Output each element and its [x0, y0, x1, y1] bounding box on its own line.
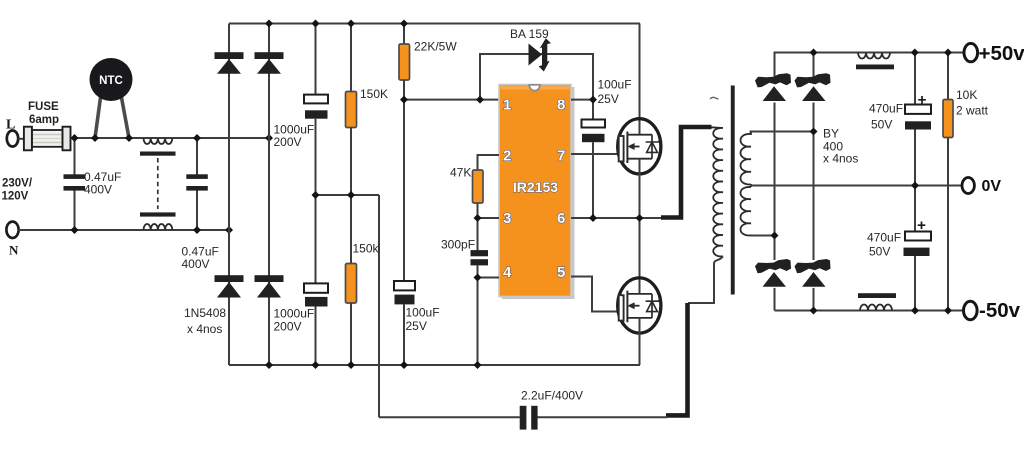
- label FUSE 6amp: [28, 101, 59, 126]
- node dots top rail: [265, 20, 408, 28]
- wire thick primary return: [666, 303, 688, 415]
- svg-text:25V: 25V: [406, 319, 427, 333]
- svg-text:-50v: -50v: [979, 299, 1021, 322]
- label BY 400 x 4nos: [823, 127, 858, 166]
- label 470uF 50V (upper): [869, 102, 903, 132]
- terminal 0V: [962, 178, 1001, 196]
- label 10K 2 watt: [956, 88, 989, 118]
- diode D3 1N5408: [215, 275, 244, 297]
- svg-text:x 4nos: x 4nos: [187, 322, 222, 336]
- wire secondary centre tap (0V line): [751, 185, 962, 187]
- svg-text:6amp: 6amp: [29, 114, 59, 126]
- label 470uF 50V (lower): [867, 231, 901, 259]
- capacitor 1000uF 200V (upper): [304, 24, 328, 284]
- svg-text:6: 6: [557, 210, 565, 227]
- svg-text:4: 4: [503, 264, 512, 281]
- label 1000uF 200V (lower): [274, 307, 315, 334]
- svg-text:x 4nos: x 4nos: [823, 152, 858, 166]
- capacitor 100uF 25V (Vcc filter): [394, 281, 415, 365]
- resistor 150K (upper): [346, 24, 357, 267]
- svg-text:3: 3: [503, 210, 511, 227]
- node dots ground rail: [265, 361, 482, 369]
- svg-text:BY: BY: [823, 127, 839, 141]
- svg-text:120V: 120V: [2, 191, 29, 203]
- capacitor 470uF 50V (lower): [904, 186, 932, 311]
- inductor L3 (-50V filter): [858, 293, 896, 310]
- diode D6 BY400 (top right): [795, 73, 831, 101]
- svg-text:230V/: 230V/: [2, 178, 33, 190]
- transformer T1 primary winding: [712, 127, 724, 256]
- choke core dashed link: [157, 158, 159, 209]
- wire right column to -50 rail: [813, 288, 815, 311]
- diode D5 BY400 (top left): [755, 73, 791, 101]
- svg-text:47K: 47K: [450, 166, 471, 180]
- wire right column middle: [813, 103, 815, 261]
- wire left column to -50 rail: [774, 288, 776, 311]
- svg-text:1N5408: 1N5408: [184, 306, 226, 320]
- svg-text:FUSE: FUSE: [28, 101, 59, 113]
- wire pin 3: [478, 217, 500, 219]
- wire 47K to pin 3: [477, 203, 479, 251]
- wire Vcc to pin 1: [404, 99, 499, 101]
- diode D7 BY400 (bottom left): [755, 259, 791, 287]
- wire N line: [19, 229, 229, 231]
- svg-text:+50v: +50v: [979, 42, 1024, 65]
- svg-text:25V: 25V: [598, 92, 619, 106]
- svg-text:50V: 50V: [871, 118, 892, 132]
- common-mode choke lower winding: [144, 224, 173, 230]
- svg-text:7: 7: [557, 148, 565, 165]
- resistor 47K: [473, 170, 484, 203]
- svg-text:470uF: 470uF: [867, 231, 901, 245]
- capacitor 100uF 25V (bootstrap): [582, 100, 606, 218]
- NTC thermistor: [90, 58, 133, 138]
- svg-text:400V: 400V: [182, 257, 210, 271]
- terminal L: [6, 118, 18, 147]
- op-amp U1 IR2153 body: [499, 85, 575, 300]
- wire 300pF to ground rail: [477, 265, 479, 365]
- svg-text:100uF: 100uF: [406, 306, 440, 320]
- wire mid-rail down to coupling cap: [378, 195, 380, 417]
- node dots pin1 row: [400, 96, 597, 104]
- label 1N5408 x 4nos: [184, 306, 226, 336]
- svg-text:8: 8: [557, 97, 565, 114]
- transistor Q1 MOSFET: [618, 119, 661, 174]
- transformer core: [731, 86, 735, 295]
- svg-text:150K: 150K: [360, 87, 388, 101]
- svg-text:5: 5: [557, 264, 565, 281]
- node dots on N line: [71, 226, 234, 234]
- svg-text:100uF: 100uF: [598, 78, 632, 92]
- terminal N: [6, 222, 19, 258]
- label 0.47uF 400V (second): [182, 245, 219, 272]
- capacitor 470uF 50V (upper): [905, 53, 931, 186]
- wire L to fuse: [18, 138, 25, 140]
- bridge column right wire: [268, 24, 270, 366]
- wire +50V rail: [775, 53, 964, 80]
- wire Q2 drain: [639, 218, 641, 294]
- capacitor 1000uF 200V (lower): [304, 283, 328, 365]
- choke core bar bottom: [140, 212, 176, 216]
- wire Q2 source to ground rail: [639, 318, 642, 365]
- label 100uF 25V: [406, 306, 440, 334]
- svg-text:N: N: [9, 243, 19, 258]
- wire primary bottom lead: [688, 256, 723, 303]
- node dots mid rail: [312, 191, 356, 199]
- resistor 10K 2 watt bleeder: [943, 53, 953, 311]
- wire secondary bottom tap: [751, 235, 775, 237]
- svg-text:10K: 10K: [956, 88, 977, 102]
- svg-text:2.2uF/400V: 2.2uF/400V: [521, 389, 583, 403]
- terminal +50v: [964, 42, 1024, 65]
- svg-text:200V: 200V: [274, 320, 302, 334]
- wire pin 6 row: [571, 217, 662, 219]
- svg-text:1000uF: 1000uF: [274, 307, 315, 321]
- transformer secondary lower winding: [750, 184, 752, 187]
- wire thick half-bridge node to primary top: [661, 127, 712, 218]
- transformer secondary upper winding: [741, 132, 752, 185]
- wire BA159 branch: [480, 54, 593, 100]
- wire -50V rail: [775, 310, 964, 312]
- wire mid-rail junction: [316, 194, 380, 196]
- capacitor 0.47uF 400V (input X-cap 1): [64, 138, 86, 230]
- capacitor 300pF: [471, 250, 489, 265]
- label 100uF 25V (bootstrap): [598, 78, 632, 107]
- artifact mark: [710, 97, 719, 98]
- common-mode choke upper winding: [144, 138, 173, 144]
- capacitor 2.2uF/400V: [520, 406, 538, 430]
- choke core bar top: [140, 152, 176, 156]
- diode D8 BY400 (bottom right): [795, 259, 831, 287]
- svg-text:300pF: 300pF: [441, 238, 475, 252]
- node dots output rails: [771, 49, 953, 315]
- wire Q1 source: [639, 159, 641, 218]
- terminal -50v: [964, 299, 1021, 322]
- svg-text:L: L: [6, 118, 15, 133]
- wire pin 4: [478, 277, 500, 279]
- wire pin 5 to Q2 gate: [571, 277, 619, 312]
- svg-text:150k: 150k: [353, 242, 380, 256]
- svg-text:0V: 0V: [982, 178, 1002, 195]
- svg-text:2: 2: [503, 148, 511, 165]
- label 0.47uF 400V: [84, 170, 121, 197]
- wire pin 8: [571, 99, 593, 101]
- svg-text:200V: 200V: [274, 135, 302, 149]
- bridge column left wire: [228, 24, 230, 366]
- svg-text:470uF: 470uF: [869, 102, 903, 116]
- wire secondary top tap: [750, 131, 814, 133]
- svg-text:1: 1: [503, 97, 511, 114]
- diode D2 1N5408: [255, 52, 284, 74]
- svg-text:BA 159: BA 159: [510, 27, 549, 41]
- node dots pin6 row: [589, 214, 644, 222]
- svg-text:400V: 400V: [84, 183, 112, 197]
- svg-text:22K/5W: 22K/5W: [414, 40, 457, 54]
- fuse F1 6amp: [24, 127, 71, 151]
- wire L line: [71, 137, 270, 139]
- wire rectifier left column: [774, 103, 776, 261]
- node dots on L line: [71, 134, 274, 142]
- diode BA 159: [529, 38, 552, 71]
- bottom DC rail (ground): [229, 364, 640, 366]
- label 230V/120V: [2, 178, 33, 203]
- resistor 22K/5W: [399, 24, 410, 282]
- resistor 150k (lower): [346, 264, 357, 366]
- capacitor 0.47uF 400V (input X-cap 2): [186, 138, 208, 230]
- label 1000uF 200V (upper): [274, 123, 315, 150]
- svg-text:50V: 50V: [869, 245, 890, 259]
- wire rectifier right column top: [813, 53, 815, 80]
- wire Q1 drain from rail: [639, 24, 641, 135]
- wire pin 2: [478, 155, 500, 171]
- transistor Q2 MOSFET: [618, 278, 661, 333]
- svg-text:NTC: NTC: [99, 75, 123, 87]
- wire pin 7 to Q1 gate: [571, 153, 619, 155]
- top DC rail: [229, 23, 640, 25]
- svg-text:2 watt: 2 watt: [956, 104, 989, 118]
- inductor L2 (+50V filter): [856, 53, 894, 70]
- wire coupling cap line: [379, 416, 667, 418]
- svg-text:IR2153: IR2153: [513, 179, 558, 195]
- node dots oscillator column: [474, 214, 482, 282]
- diode D4 1N5408: [255, 275, 284, 297]
- diode D1 1N5408: [215, 52, 244, 74]
